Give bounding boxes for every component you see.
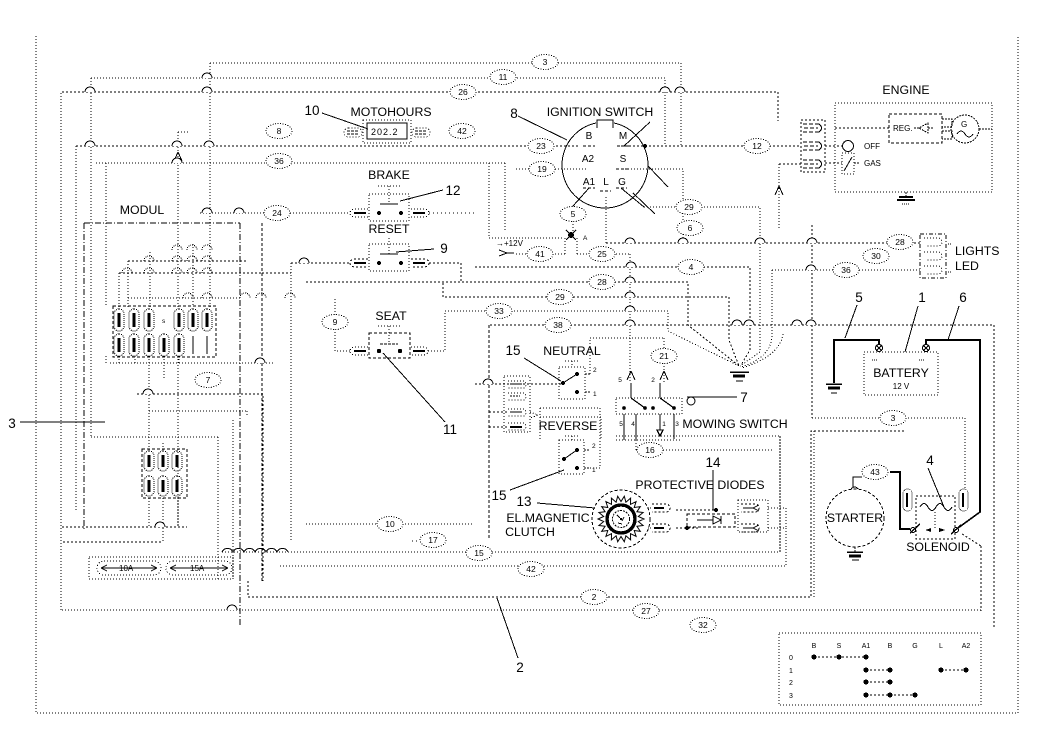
- wire vertical x178: [178, 132, 190, 527]
- wire lights 28 row: [606, 242, 920, 244]
- svg-text:0: 0: [789, 655, 793, 662]
- svg-text:29: 29: [555, 292, 565, 302]
- wire x291: [290, 263, 292, 541]
- fuse caps row2: [114, 334, 184, 356]
- modul hops row3: [122, 268, 212, 273]
- wire diode out: [768, 508, 786, 528]
- wire brake right: [429, 212, 475, 214]
- svg-text:12: 12: [752, 141, 762, 151]
- svg-text:3: 3: [891, 413, 896, 423]
- leader 15a: [524, 358, 561, 381]
- svg-text:CLUTCH: CLUTCH: [505, 525, 555, 539]
- svg-text:15A: 15A: [190, 564, 205, 573]
- brake left plug: [350, 209, 368, 217]
- modul hops row2: [144, 256, 212, 261]
- wire y408 row: [149, 411, 247, 416]
- wire A1 to node: [572, 206, 574, 231]
- EL MAGNETIC CLUTCH: [516, 494, 531, 509]
- svg-text:4: 4: [631, 421, 635, 428]
- svg-text:EL.MAGNETIC: EL.MAGNETIC: [506, 511, 589, 525]
- wire y527: [62, 526, 187, 528]
- svg-text:5: 5: [571, 209, 576, 219]
- wire 28 from reset: [306, 263, 739, 366]
- battery ground: [826, 384, 842, 393]
- mowing box: [616, 398, 682, 414]
- wire y542: [63, 541, 163, 543]
- reg diode triangle: [914, 123, 934, 133]
- svg-text:4: 4: [689, 262, 694, 272]
- svg-text:S: S: [620, 154, 627, 165]
- PROTECTIVE DIODES: [705, 455, 721, 470]
- svg-text:21: 21: [659, 351, 669, 361]
- wire x229: [232, 420, 234, 579]
- LIGHTS connector: [920, 234, 952, 278]
- leader 10: [322, 113, 368, 129]
- svg-text:24: 24: [272, 208, 282, 218]
- svg-text:B: B: [888, 643, 893, 650]
- svg-text:1: 1: [593, 391, 597, 398]
- svg-text:14: 14: [705, 455, 721, 470]
- wire 3 top: [210, 63, 681, 146]
- MOTOHOURS: [350, 105, 431, 119]
- fuse 10A 15A: [89, 557, 233, 579]
- leader 9: [396, 249, 434, 252]
- wire 11 top: [91, 78, 665, 146]
- wire 10: [306, 523, 472, 525]
- reset right plug: [411, 259, 429, 267]
- reverse switch: [559, 436, 590, 474]
- engine ground: [897, 192, 915, 204]
- solenoid contacts: [910, 524, 961, 534]
- table row2: [863, 679, 892, 684]
- svg-text:7: 7: [206, 375, 211, 385]
- svg-text:27: 27: [641, 606, 651, 616]
- wire 3 battery row: [812, 418, 965, 490]
- svg-text:15: 15: [474, 548, 484, 558]
- svg-text:LIGHTS: LIGHTS: [955, 244, 999, 258]
- battery terminals: [872, 345, 930, 361]
- neutral wire: [475, 383, 561, 385]
- wire x505 drop: [504, 163, 506, 231]
- fuse block 2: [142, 449, 187, 498]
- svg-text:30: 30: [871, 251, 881, 261]
- wire arrow up x779: [778, 164, 780, 229]
- wire y363: [110, 362, 275, 364]
- node A: [566, 230, 576, 240]
- svg-text:12: 12: [445, 183, 460, 198]
- reset left plug: [350, 259, 368, 267]
- battery neg wire to ground: [834, 340, 879, 383]
- svg-text:10A: 10A: [119, 564, 134, 573]
- MODUL label: [120, 203, 165, 217]
- svg-text:B: B: [586, 131, 593, 142]
- starter ground: [847, 547, 863, 560]
- wire pin3 row: [779, 163, 801, 165]
- svg-text:2: 2: [593, 367, 597, 374]
- svg-text:2: 2: [789, 680, 793, 687]
- svg-text:9: 9: [333, 317, 338, 327]
- svg-text:3: 3: [675, 421, 679, 428]
- wire x814 down: [813, 431, 815, 599]
- svg-text:13: 13: [516, 494, 531, 509]
- ignition diagonals: [518, 116, 668, 214]
- fuse block 1 stubs: [106, 356, 179, 451]
- svg-text:28: 28: [597, 277, 607, 287]
- svg-text:ENGINE: ENGINE: [882, 83, 929, 97]
- svg-text:2: 2: [516, 660, 524, 675]
- svg-text:15: 15: [505, 343, 520, 358]
- table row3: [863, 692, 917, 697]
- svg-text:1: 1: [662, 421, 666, 428]
- wire x119: [118, 273, 120, 307]
- fuse block 1: [113, 306, 216, 357]
- REVERSE: [539, 419, 598, 433]
- wire x489: [488, 325, 490, 539]
- fan extra curve: [742, 334, 783, 368]
- BATTERY: [855, 290, 967, 305]
- svg-text:38: 38: [553, 320, 563, 330]
- wire 12 row to connector: [617, 144, 801, 148]
- svg-text:5: 5: [619, 421, 623, 428]
- svg-text:B: B: [812, 643, 817, 650]
- svg-text:1: 1: [789, 668, 793, 675]
- svg-text:A1: A1: [583, 177, 596, 188]
- modul wire y298: [128, 297, 240, 299]
- wire L pin down: [605, 197, 607, 243]
- svg-text:3: 3: [543, 57, 548, 67]
- fuse caps row1: [114, 309, 212, 331]
- svg-text:28: 28: [895, 237, 905, 247]
- big box clutch area: [616, 436, 780, 552]
- table row1: [863, 667, 968, 672]
- wire 36 horizontal: [96, 162, 505, 164]
- svg-text:LED: LED: [955, 259, 979, 273]
- wire 26 top: [62, 92, 778, 121]
- wire 2 long: [248, 431, 906, 597]
- modul wire y261: [128, 260, 248, 262]
- wire 38 long: [490, 325, 994, 627]
- svg-text:3: 3: [789, 693, 793, 700]
- svg-text:IGNITION SWITCH: IGNITION SWITCH: [547, 105, 654, 119]
- coil bumps 15 wire: [222, 548, 288, 552]
- svg-text:MOTOHOURS: MOTOHOURS: [350, 105, 431, 119]
- svg-text:3: 3: [8, 416, 16, 431]
- wire 25 feed to mowing: [629, 254, 631, 383]
- svg-text:1: 1: [918, 290, 926, 305]
- generator G: [942, 115, 992, 143]
- fan ground: [730, 372, 749, 381]
- svg-text:BATTERY: BATTERY: [873, 366, 929, 380]
- MOWING SWITCH: [682, 417, 787, 431]
- svg-text:REVERSE: REVERSE: [539, 419, 598, 433]
- fuse block 2 lower stubs: [149, 498, 178, 542]
- wire off gas stubs: [825, 146, 843, 163]
- SEAT switch: [375, 309, 407, 323]
- svg-text:G: G: [912, 643, 917, 650]
- STARTER: [826, 489, 884, 547]
- reverse outer box: [540, 408, 600, 468]
- svg-text:42: 42: [526, 564, 536, 574]
- table row0: [811, 654, 868, 659]
- GAS switch: [842, 153, 860, 174]
- svg-text:29: 29: [684, 202, 694, 212]
- svg-text:41: 41: [535, 249, 545, 259]
- svg-text:GAS: GAS: [864, 159, 881, 168]
- wire vertical x210: [209, 63, 211, 307]
- svg-text:43: 43: [870, 467, 880, 477]
- svg-text:→+12V: →+12V: [496, 239, 524, 248]
- svg-text:1: 1: [592, 467, 596, 474]
- svg-text:6: 6: [688, 223, 693, 233]
- svg-text:G: G: [961, 120, 967, 129]
- svg-text:M: M: [619, 131, 627, 142]
- svg-text:SOLENOID: SOLENOID: [906, 540, 970, 554]
- REG box: [835, 114, 942, 143]
- SOLENOID: [926, 453, 934, 468]
- motohours left plug: [344, 128, 362, 137]
- svg-text:25: 25: [597, 249, 607, 259]
- svg-text:11: 11: [443, 422, 457, 437]
- svg-text:10: 10: [385, 519, 395, 529]
- wire x128: [127, 261, 129, 307]
- wire x812 long: [811, 225, 813, 418]
- svg-text:202.2: 202.2: [371, 127, 399, 137]
- diode left plugs: [652, 504, 670, 532]
- number ovals: [195, 55, 913, 633]
- svg-text:STARTER: STARTER: [827, 511, 883, 525]
- BRAKE switch: [368, 168, 410, 182]
- wire 42 long: [280, 528, 786, 566]
- wire 21 vertical: [590, 338, 664, 383]
- svg-text:36: 36: [274, 156, 284, 166]
- MODUL box: [84, 223, 240, 626]
- wire G 29 row: [644, 207, 760, 366]
- ignition pin ticks: [583, 146, 630, 191]
- svg-text:5: 5: [855, 290, 863, 305]
- svg-text:42: 42: [457, 126, 467, 136]
- svg-text:OFF: OFF: [864, 142, 880, 151]
- wire x262: [261, 223, 263, 581]
- svg-text:16: 16: [645, 445, 655, 455]
- battery pos wire: [926, 340, 980, 528]
- svg-text:4: 4: [926, 453, 934, 468]
- svg-text:MODUL: MODUL: [120, 203, 165, 217]
- svg-text:A2: A2: [962, 643, 971, 650]
- svg-text:9: 9: [440, 241, 448, 256]
- wire seat right: [428, 311, 445, 351]
- svg-text:32: 32: [698, 620, 708, 630]
- diode box: [676, 508, 735, 530]
- svg-text:8: 8: [277, 126, 282, 136]
- wire 24 to brake: [200, 212, 350, 214]
- connector 15 block: [504, 376, 530, 432]
- clutch wires to diodes: [648, 508, 652, 528]
- seat left plug: [350, 347, 368, 355]
- oval 43 wire: [890, 472, 910, 529]
- wire vertical x193: [192, 244, 194, 307]
- svg-text:36: 36: [841, 265, 851, 275]
- wire vertical x61: [60, 93, 62, 610]
- wire y412 y427: [489, 412, 508, 427]
- wire arrow x631: [627, 371, 635, 380]
- OFF circle: [843, 141, 854, 152]
- wire y394: [137, 394, 263, 581]
- RESET switch: [369, 222, 410, 236]
- modul hops row4: [183, 293, 295, 298]
- wire y437 fuse2: [91, 437, 218, 451]
- truth table: [779, 633, 981, 705]
- svg-text:26: 26: [458, 87, 468, 97]
- svg-text:L: L: [603, 177, 609, 188]
- ignition labels: [547, 105, 654, 119]
- wire 17 stub: [412, 540, 420, 542]
- wire reset left: [291, 258, 350, 263]
- wire S down: [625, 169, 683, 243]
- wire 15 long: [222, 436, 780, 552]
- NEUTRAL: [543, 344, 601, 358]
- wire vertical x91: [90, 78, 92, 437]
- modul wire y273: [119, 272, 291, 274]
- clutch circles: [592, 490, 650, 548]
- svg-text:10: 10: [304, 103, 319, 118]
- wire 2 label leader: [516, 660, 524, 675]
- connector engine block: [801, 120, 825, 172]
- leader 11: [383, 353, 445, 422]
- wire x489 upper: [489, 163, 562, 238]
- leader 15b: [491, 488, 506, 503]
- modul hops row1: [172, 245, 212, 250]
- wire vertical x106: [105, 163, 107, 307]
- seat right plug: [411, 347, 428, 355]
- svg-text:12 V: 12 V: [893, 382, 910, 391]
- svg-text:SEAT: SEAT: [375, 309, 407, 323]
- label 3 with leader: [8, 416, 16, 431]
- svg-text:A2: A2: [582, 154, 595, 165]
- wire lights 36 row: [741, 270, 920, 367]
- leader 7: [687, 397, 737, 405]
- wire y417 reverse: [530, 412, 601, 440]
- ENGINE box: [835, 103, 992, 192]
- svg-text:L: L: [939, 643, 943, 650]
- wire 41 25 row: [516, 238, 630, 254]
- svg-text:2: 2: [651, 377, 655, 384]
- wire 16 row: [636, 440, 772, 450]
- svg-text:2: 2: [592, 443, 596, 450]
- motohours right plug: [412, 128, 430, 137]
- svg-text:7: 7: [740, 390, 748, 405]
- neutral switch: [559, 361, 591, 399]
- mowing lower box line: [616, 439, 682, 441]
- motohours display: [363, 120, 411, 143]
- svg-text:s: s: [162, 318, 166, 325]
- diode right plugs: [738, 500, 768, 532]
- svg-text:17: 17: [428, 535, 438, 545]
- wire x150: [149, 252, 151, 307]
- mowing bottom pins: [624, 414, 674, 441]
- wire 4 row: [475, 267, 750, 365]
- svg-text:33: 33: [494, 306, 504, 316]
- wire 23 main horizontal: [76, 145, 578, 147]
- svg-text:6: 6: [959, 290, 967, 305]
- svg-text:8: 8: [510, 106, 518, 121]
- svg-text:A1: A1: [862, 643, 871, 650]
- svg-text:REG.: REG.: [893, 124, 913, 133]
- svg-text:A: A: [583, 235, 588, 242]
- svg-text:G: G: [618, 177, 626, 188]
- svg-text:15: 15: [491, 488, 506, 503]
- wire 27 bottom: [62, 609, 981, 611]
- svg-text:2: 2: [592, 592, 597, 602]
- wire x219: [217, 437, 219, 579]
- ignition circle: [562, 118, 648, 208]
- solenoid plugs: [903, 489, 968, 511]
- svg-text:PROTECTIVE DIODES: PROTECTIVE DIODES: [635, 478, 764, 492]
- svg-text:BRAKE: BRAKE: [368, 168, 410, 182]
- leader 8: [510, 106, 518, 121]
- svg-text:19: 19: [537, 164, 547, 174]
- wire 19 to A2: [516, 168, 586, 170]
- leader 12: [400, 190, 443, 201]
- svg-text:5: 5: [618, 377, 622, 384]
- svg-text:S: S: [837, 643, 842, 650]
- svg-text:NEUTRAL: NEUTRAL: [543, 344, 601, 358]
- svg-text:23: 23: [536, 141, 546, 151]
- svg-text:11: 11: [499, 72, 508, 82]
- solenoid right wires: [962, 534, 981, 611]
- hop arcs on wires: [85, 73, 817, 610]
- mowing top pins: [622, 383, 676, 410]
- wire 33 seat row: [445, 311, 739, 366]
- svg-text:RESET: RESET: [369, 222, 410, 236]
- brake right plug: [411, 209, 429, 217]
- svg-text:MOWING SWITCH: MOWING SWITCH: [682, 417, 787, 431]
- wire 29 mid: [443, 283, 739, 366]
- +12V symbol: [496, 239, 524, 248]
- wire oval9 vertical: [335, 299, 350, 351]
- wire vertical x76: [75, 146, 77, 512]
